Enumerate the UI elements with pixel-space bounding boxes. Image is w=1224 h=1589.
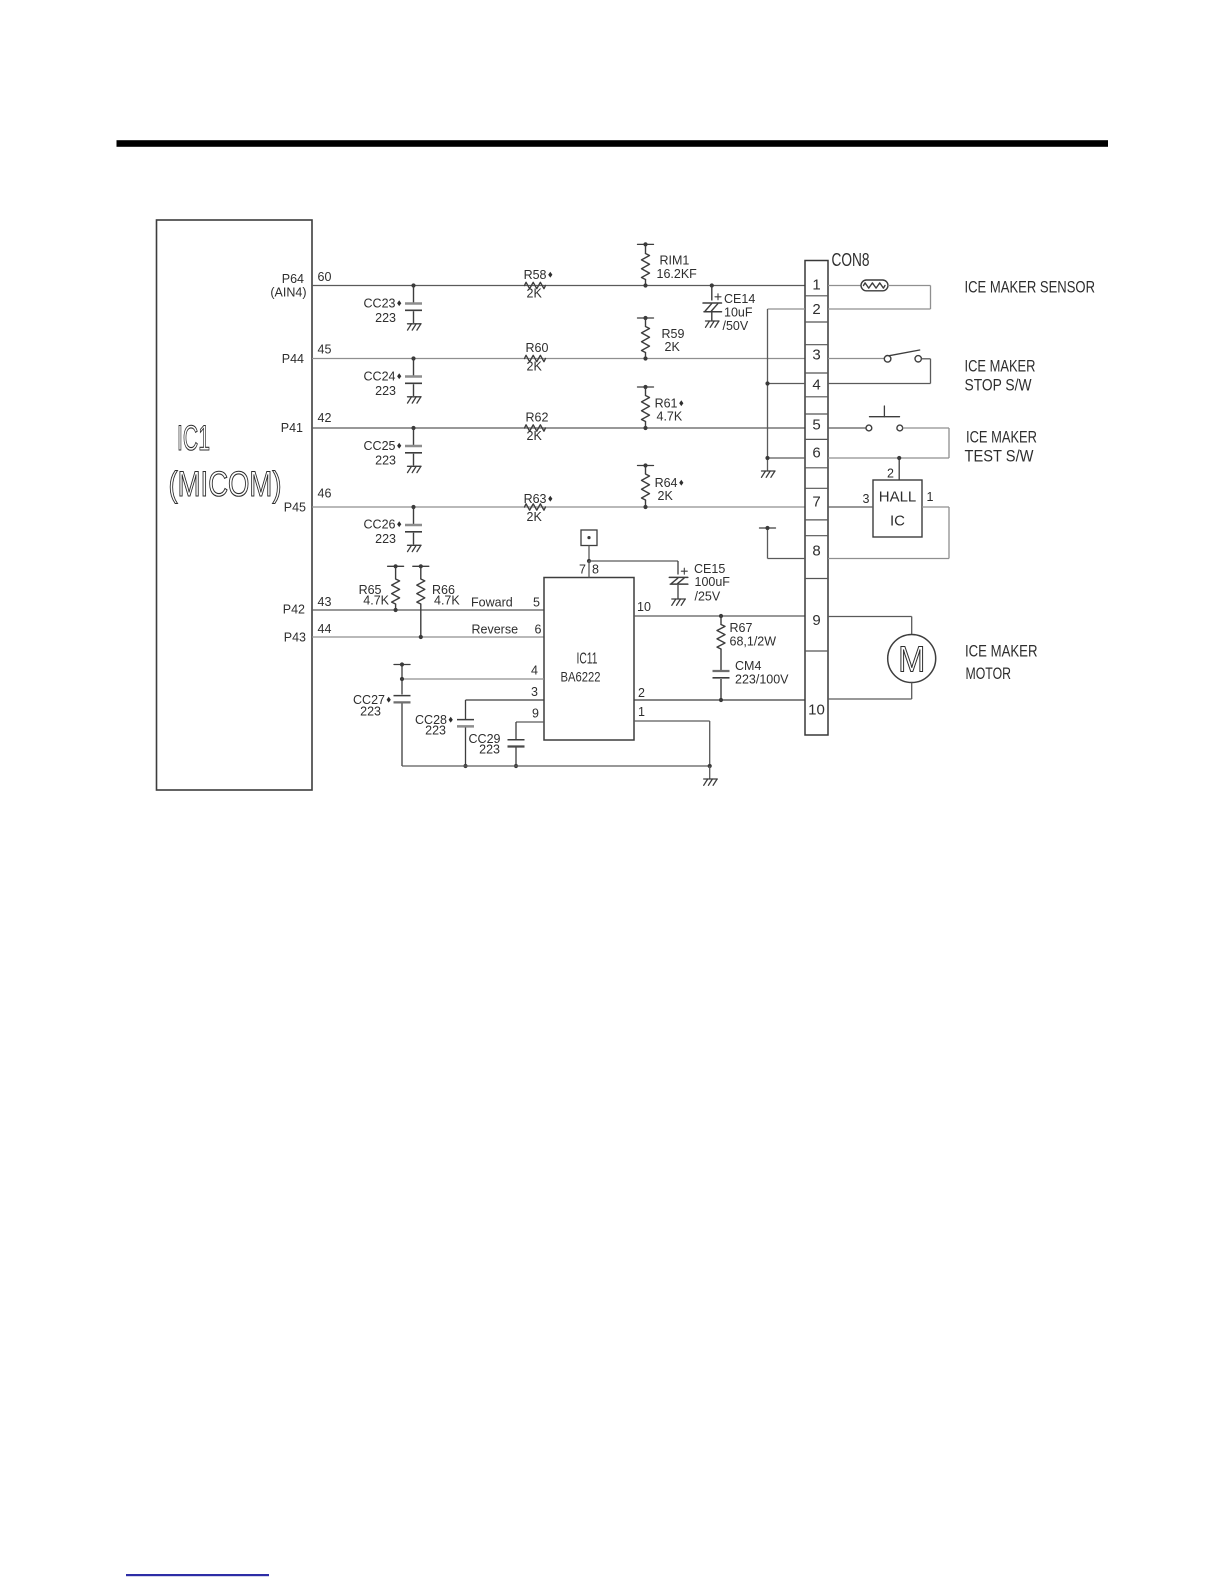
svg-text:CC23: CC23 bbox=[364, 297, 396, 311]
svg-text:CM4: CM4 bbox=[735, 659, 761, 673]
capacitor CC24 223 bbox=[411, 356, 415, 360]
svg-text:ICE MAKER: ICE MAKER bbox=[965, 357, 1036, 376]
capacitor CE15 100uF/25V electrolytic bbox=[589, 560, 678, 562]
svg-text:2K: 2K bbox=[527, 429, 543, 443]
svg-text:10: 10 bbox=[637, 600, 651, 614]
svg-text:Foward: Foward bbox=[471, 596, 513, 610]
svg-text:5: 5 bbox=[812, 417, 820, 434]
svg-text:223: 223 bbox=[375, 532, 396, 546]
svg-text:1: 1 bbox=[812, 277, 820, 294]
svg-text:R62: R62 bbox=[526, 411, 549, 425]
svg-text:4: 4 bbox=[531, 664, 538, 678]
svg-text:R59: R59 bbox=[662, 327, 685, 341]
svg-text:10: 10 bbox=[808, 702, 825, 719]
ice maker sensor thermistor on CON8 pins 1-2 bbox=[828, 285, 861, 287]
svg-text:R64: R64 bbox=[655, 476, 678, 490]
resistor R60 2K bbox=[525, 355, 546, 361]
svg-text:BA6222: BA6222 bbox=[561, 669, 601, 685]
svg-text:ICE MAKER: ICE MAKER bbox=[965, 642, 1038, 661]
svg-text:CON8: CON8 bbox=[832, 249, 870, 270]
svg-text:CE15: CE15 bbox=[694, 562, 725, 576]
svg-text:R61: R61 bbox=[655, 397, 678, 411]
svg-text:ICE MAKER SENSOR: ICE MAKER SENSOR bbox=[965, 278, 1096, 297]
capacitor CM4 223/100V bbox=[713, 670, 730, 672]
svg-text:HALL: HALL bbox=[879, 489, 917, 506]
svg-text:9: 9 bbox=[812, 612, 820, 629]
svg-text:P44: P44 bbox=[282, 352, 304, 366]
svg-text:R58: R58 bbox=[524, 268, 547, 282]
svg-text:46: 46 bbox=[318, 487, 332, 501]
resistor R63 2K bbox=[525, 504, 546, 510]
connector CON8 housing bbox=[805, 261, 828, 736]
svg-text:(AIN4): (AIN4) bbox=[270, 286, 306, 300]
wire IC11 pin 9 net bbox=[516, 721, 544, 723]
resistor R62 2K bbox=[525, 425, 546, 431]
svg-text:6: 6 bbox=[535, 623, 542, 637]
resistor RIM1 16.2KF pull-up bbox=[638, 243, 654, 245]
svg-text:8: 8 bbox=[592, 563, 599, 577]
resistor R66 4.7K pull-up bbox=[413, 565, 429, 567]
resistor R67 68,1/2W bbox=[719, 614, 723, 618]
svg-text:7: 7 bbox=[579, 563, 586, 577]
wire CON8 pin 4 to ground bus bbox=[768, 383, 806, 385]
svg-text:IC1: IC1 bbox=[177, 419, 210, 458]
svg-text:9: 9 bbox=[532, 707, 539, 721]
ice maker stop switch on CON8 pins 3-4 bbox=[828, 358, 884, 360]
svg-text:2K: 2K bbox=[527, 510, 543, 524]
svg-text:2K: 2K bbox=[527, 360, 543, 374]
svg-text:3: 3 bbox=[863, 492, 870, 506]
svg-text:IC: IC bbox=[890, 513, 905, 530]
svg-text:R60: R60 bbox=[526, 341, 549, 355]
svg-text:42: 42 bbox=[318, 411, 332, 425]
svg-text:P64: P64 bbox=[282, 272, 304, 286]
svg-text:4.7K: 4.7K bbox=[657, 410, 683, 424]
svg-text:R67: R67 bbox=[730, 621, 753, 635]
ic HALL IC bbox=[873, 480, 922, 537]
svg-text:4.7K: 4.7K bbox=[363, 594, 389, 608]
capacitor CC23 223 bbox=[411, 283, 415, 287]
svg-text:P41: P41 bbox=[281, 421, 303, 435]
svg-text:223: 223 bbox=[479, 743, 500, 757]
ice maker test switch on CON8 pins 5-6 bbox=[828, 427, 866, 429]
capacitor CC29 223 bbox=[515, 722, 517, 739]
svg-text:1: 1 bbox=[927, 490, 934, 504]
wire CON8 pin 9 to motor bbox=[828, 616, 912, 618]
svg-text:100uF: 100uF bbox=[695, 575, 731, 589]
svg-text:ICE MAKER: ICE MAKER bbox=[966, 428, 1037, 447]
resistor R61 4.7K pull-up bbox=[638, 386, 654, 388]
page top rule bbox=[117, 140, 1109, 147]
svg-text:P42: P42 bbox=[283, 603, 305, 617]
ground for CON8 bus bbox=[762, 470, 776, 472]
svg-text:CE14: CE14 bbox=[724, 292, 755, 306]
svg-text:68,1/2W: 68,1/2W bbox=[730, 635, 777, 649]
node junction above IC11 pin 7/8 bbox=[587, 559, 591, 563]
bottom-left blue rule bbox=[126, 1574, 269, 1576]
svg-text:2: 2 bbox=[812, 301, 820, 318]
capacitor CC26 223 bbox=[411, 505, 415, 509]
resistor R65 4.7K pull-up bbox=[388, 565, 404, 567]
svg-text:16.2KF: 16.2KF bbox=[657, 267, 698, 281]
svg-text:TEST S/W: TEST S/W bbox=[965, 447, 1034, 466]
capacitor CC27 223 bbox=[394, 664, 410, 666]
svg-text:MOTOR: MOTOR bbox=[966, 664, 1012, 683]
svg-text:CC26: CC26 bbox=[364, 518, 396, 532]
svg-text:RIM1: RIM1 bbox=[660, 254, 690, 268]
svg-text:223/100V: 223/100V bbox=[735, 673, 789, 687]
svg-text:223: 223 bbox=[375, 384, 396, 398]
svg-text:2K: 2K bbox=[658, 489, 674, 503]
svg-text:6: 6 bbox=[812, 445, 820, 462]
svg-text:2: 2 bbox=[887, 467, 894, 481]
ic IC11 BA6222 motor driver bbox=[544, 578, 634, 741]
motor M ice maker bbox=[888, 635, 936, 683]
svg-text:IC11: IC11 bbox=[577, 651, 598, 668]
wire net P64/AIN4 from IC1 pin 60 to CON8 pin 1 bbox=[312, 285, 805, 287]
wire IC11 pin 3 net bbox=[466, 699, 545, 701]
svg-text:CC24: CC24 bbox=[364, 370, 396, 384]
svg-text:8: 8 bbox=[812, 543, 820, 560]
svg-text:223: 223 bbox=[375, 311, 396, 325]
svg-text:5: 5 bbox=[533, 596, 540, 610]
ground under IC11 rail bbox=[704, 778, 718, 780]
node junction CON8 pin6 to hall IC pin 2 bbox=[897, 456, 901, 460]
resistor R58 2K bbox=[525, 282, 546, 288]
wire bottom ground rail under IC11 bbox=[402, 765, 710, 767]
svg-text:Reverse: Reverse bbox=[472, 623, 519, 637]
wire net P45 from IC1 pin 46 to CON8 pin 7 bbox=[312, 506, 805, 508]
svg-text:43: 43 bbox=[318, 595, 332, 609]
svg-text:/50V: /50V bbox=[723, 319, 749, 333]
svg-text:STOP S/W: STOP S/W bbox=[965, 376, 1032, 395]
svg-text:P45: P45 bbox=[284, 501, 306, 515]
ic U-IC1 MICOM box bbox=[157, 220, 313, 790]
svg-text:7: 7 bbox=[812, 494, 820, 511]
svg-text:M: M bbox=[898, 639, 925, 680]
wire CON8 pin 8 to supply stub bbox=[768, 558, 806, 560]
svg-text:4: 4 bbox=[812, 377, 820, 394]
wire ground bus from CON8 pins 2,4,6 bbox=[768, 308, 806, 310]
svg-text:3: 3 bbox=[812, 347, 820, 364]
svg-text:2K: 2K bbox=[527, 287, 543, 301]
test point / jumper above IC11 pins 7,8 bbox=[581, 530, 597, 546]
svg-text:223: 223 bbox=[425, 724, 446, 738]
svg-text:60: 60 bbox=[318, 270, 332, 284]
capacitor CE14 10uF/50V electrolytic bbox=[710, 283, 714, 287]
resistor R59 2K pull-up bbox=[638, 317, 654, 319]
svg-text:/25V: /25V bbox=[695, 590, 721, 604]
svg-text:2K: 2K bbox=[665, 340, 681, 354]
wire CON8 pin 6 to ground bus bbox=[768, 457, 806, 459]
svg-text:3: 3 bbox=[531, 685, 538, 699]
capacitor CC25 223 bbox=[411, 426, 415, 430]
svg-text:44: 44 bbox=[318, 622, 332, 636]
svg-text:223: 223 bbox=[360, 705, 381, 719]
wire net P44 from IC1 pin 45 to CON8 pin 3 bbox=[312, 358, 805, 360]
svg-text:4.7K: 4.7K bbox=[434, 594, 460, 608]
svg-text:(MICOM): (MICOM) bbox=[169, 465, 282, 504]
svg-text:1: 1 bbox=[638, 705, 645, 719]
wire net P43 Reverse from IC1 pin 44 to IC11 pin 6 bbox=[312, 636, 544, 638]
wire IC11 pin 4 net bbox=[402, 678, 544, 680]
svg-text:45: 45 bbox=[318, 343, 332, 357]
resistor R64 2K pull-up bbox=[638, 465, 654, 467]
wire net P42 Foward from IC1 pin 43 to IC11 pin 5 bbox=[312, 609, 544, 611]
wire net P41 from IC1 pin 42 to CON8 pin 5 bbox=[312, 427, 805, 429]
wire motor to CON8 pin 10 bbox=[911, 683, 913, 700]
svg-text:CC25: CC25 bbox=[364, 439, 396, 453]
svg-text:2: 2 bbox=[638, 686, 645, 700]
svg-text:223: 223 bbox=[375, 454, 396, 468]
svg-text:10uF: 10uF bbox=[724, 306, 753, 320]
svg-text:R63: R63 bbox=[524, 492, 547, 506]
capacitor CC28 223 bbox=[465, 700, 467, 719]
svg-text:P43: P43 bbox=[284, 631, 306, 645]
